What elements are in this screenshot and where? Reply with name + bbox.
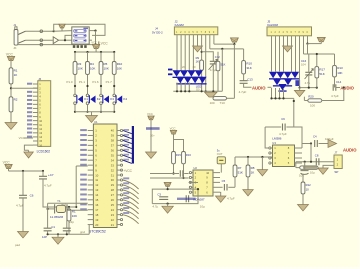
- ground LED2: [294, 90, 305, 96]
- node amp branch: [64, 39, 66, 41]
- wire gnd stem crystal: [57, 234, 59, 237]
- MCU pin31 terminal circle: [120, 174, 122, 176]
- svg-text:JK: JK: [13, 46, 16, 50]
- capacitor C2 plates: [63, 228, 71, 231]
- wire cap to U2 pin1: [184, 173, 188, 175]
- wire LED2 rail corner down: [293, 98, 295, 127]
- LCD pin3 net label: [27, 91, 32, 93]
- MCU pin24 terminal circle: [120, 209, 122, 211]
- wire MCU pin1 stub left: [88, 130, 94, 132]
- wire J5 pin7 down: [295, 36, 297, 76]
- node LED1 rail 1: [176, 90, 178, 92]
- node rail R8: [247, 156, 249, 158]
- diode D8 row2: [198, 77, 206, 83]
- bus entry tick pin34: [123, 160, 132, 163]
- wire J5 pin2 to LED array2: [275, 36, 277, 72]
- wire VCC stem: [61, 28, 63, 31]
- capacitor C4a series: [180, 170, 183, 177]
- wire col3 rail to resistor: [100, 52, 102, 62]
- svg-text:U3: U3: [272, 141, 276, 145]
- potentiometer RP1 body: [213, 97, 227, 100]
- svg-text:100: 100: [310, 104, 315, 108]
- svg-text:R16: R16: [186, 153, 191, 157]
- wire LED2 col3 down: [279, 88, 281, 98]
- wire node to R1rst: [69, 206, 76, 208]
- U3 pin7 stub: [295, 152, 303, 154]
- MCU pin24 fanout hook: [123, 210, 139, 219]
- wire LCD pin2 stub: [33, 87, 38, 89]
- resistor R10: [112, 62, 116, 75]
- LCD pin9 net label: [27, 115, 32, 117]
- wire R16 down: [183, 164, 185, 178]
- power symbol VCC U2 col: [148, 116, 155, 120]
- svg-text:R5: R5: [104, 62, 108, 66]
- svg-text:100: 100: [210, 101, 215, 105]
- wire vcc stem lower-left: [8, 169, 10, 171]
- wire rail gnd stem: [261, 157, 263, 170]
- wire C3 loop: [152, 189, 198, 204]
- svg-text:R20: R20: [308, 94, 314, 98]
- svg-text:25: 25: [111, 203, 115, 207]
- power symbol VCC header J5: [317, 37, 325, 41]
- diode D4 row1: [195, 70, 203, 76]
- node loop pin3: [197, 188, 199, 190]
- wire MCU pin40 stub right: [117, 130, 120, 132]
- wire J5 pin6 to LED array2: [291, 36, 293, 72]
- wire sig1 to cap: [150, 173, 179, 175]
- bus pin38 net label: [123, 139, 129, 141]
- resistor R7: [233, 165, 237, 177]
- sound module U5 body: [72, 27, 89, 44]
- svg-text:R17: R17: [319, 67, 325, 71]
- U2 pin4 circle: [189, 186, 191, 188]
- wire MCU pin6 stub left: [88, 154, 94, 156]
- wire R10 column top: [243, 49, 245, 61]
- svg-text:1K: 1K: [14, 73, 18, 77]
- U2 pin2 circle: [189, 176, 191, 178]
- resistor R3: [73, 62, 77, 75]
- wire J5 pin1 to LED array2: [271, 36, 273, 72]
- svg-text:10K: 10K: [78, 67, 83, 71]
- page edge fade right: [359, 0, 360, 269]
- wire col1 rail to resistor: [74, 52, 76, 62]
- node LED2 rail 4: [282, 97, 284, 99]
- svg-text:VCC: VCC: [3, 160, 11, 164]
- wire LCD pin6 stub: [33, 103, 38, 105]
- ground C6: [18, 232, 29, 239]
- wire J5 top rail right: [304, 53, 335, 55]
- wire R17 top: [316, 54, 318, 67]
- svg-text:J7: J7: [334, 151, 337, 155]
- wire vcc to R1: [10, 61, 12, 68]
- MCU pin36 terminal circle: [120, 149, 122, 151]
- wire col4 resistor to button: [113, 75, 115, 95]
- LCD pin13 net label: [27, 132, 32, 134]
- node c3 vcc: [167, 188, 169, 190]
- node r17 bottom: [316, 87, 318, 89]
- svg-text:10K: 10K: [117, 67, 122, 71]
- svg-text:10µ: 10µ: [310, 170, 315, 174]
- node pin8 rail: [205, 90, 207, 92]
- MCU pin25 hook label: [123, 202, 129, 204]
- wire LCD pin14 stub: [33, 136, 38, 138]
- svg-text:AUDIO: AUDIO: [343, 148, 357, 153]
- resistor R16: [182, 152, 186, 164]
- svg-text:10: 10: [206, 171, 209, 175]
- wire C14 to AUDIO right: [336, 87, 340, 89]
- power symbol VCC keypad: [92, 44, 100, 48]
- trimmer C16 arrow: [305, 69, 314, 79]
- wire branch vertical 222: [221, 49, 223, 91]
- wire gnd led2 stem: [299, 88, 301, 91]
- svg-text:R3: R3: [78, 62, 82, 66]
- MCU U1 body: [93, 124, 117, 228]
- bus pin37 net label: [123, 144, 129, 146]
- wire col4 button to gnd rail: [113, 104, 115, 111]
- wire J2 pin9 down: [209, 35, 211, 49]
- svg-text:R10: R10: [246, 61, 252, 65]
- diode D11 row1: [284, 72, 292, 78]
- svg-text:51K: 51K: [319, 72, 324, 76]
- node module out: [94, 30, 96, 32]
- wire R8 gnd: [247, 177, 249, 190]
- U3 pin5 stub: [295, 162, 303, 164]
- U3 pin2 stub: [271, 152, 273, 154]
- wire C5 to R7: [228, 186, 235, 188]
- wire J2 pin10 down: [213, 35, 215, 44]
- svg-text:C3: C3: [157, 192, 161, 196]
- wire MCU pin7 stub left: [88, 159, 94, 161]
- wire LCD pin13 stub: [33, 132, 38, 134]
- wire LED2 bottom rail: [272, 97, 294, 99]
- svg-text:104: 104: [301, 62, 306, 66]
- svg-text:21: 21: [111, 223, 115, 227]
- wire jack tip to node: [26, 30, 54, 32]
- wire S1 to pin10: [220, 164, 222, 173]
- node r16 sig: [182, 177, 184, 179]
- svg-text:R8: R8: [251, 166, 255, 170]
- wire R1rst top: [68, 207, 70, 209]
- svg-text:pad: pad: [15, 243, 20, 247]
- wire c4 to arrow: [319, 143, 328, 145]
- wire R7 top: [234, 157, 236, 165]
- wire c2 column: [66, 210, 68, 228]
- wire J5 pin8 down: [299, 36, 301, 88]
- wire rpair stem: [173, 134, 175, 139]
- wire MCU pin34 stub right: [117, 159, 120, 161]
- wire rpair split: [174, 140, 184, 152]
- sound module label (CJK): [73, 45, 87, 48]
- U2 pin2 stub: [192, 177, 194, 179]
- svg-text:37: 37: [111, 144, 115, 148]
- LCD pin4 net label: [27, 95, 32, 97]
- contact circle ring: [40, 39, 43, 42]
- ground trap LED1: [205, 92, 217, 97]
- wire sp pin2 gnd: [323, 165, 334, 168]
- resistor R5: [99, 62, 103, 75]
- U3 pin4 stub: [271, 162, 273, 164]
- ground lcd divider: [5, 123, 17, 130]
- wire R17 bottom: [316, 78, 318, 88]
- resistor R10: [242, 61, 246, 74]
- MCU pin37 terminal circle: [120, 144, 122, 146]
- node LED2 rail 2: [274, 97, 276, 99]
- wire MCU pin12 stub left: [88, 184, 94, 186]
- MCU pin25 terminal circle: [120, 204, 122, 206]
- wire R1rst bottom to rail: [68, 221, 70, 234]
- wire MCU pin3 stub left: [88, 139, 94, 141]
- trimmer capacitor C12 plates: [210, 61, 217, 64]
- wire XTAL1 to MCU: [48, 202, 88, 204]
- wire LCD pin8 stub: [33, 111, 38, 113]
- LCD pin10 net label: [27, 119, 32, 121]
- wire J2 pin1 to LED array: [176, 35, 178, 71]
- svg-text:C5: C5: [222, 179, 226, 183]
- wire rail up to pin20: [88, 225, 90, 235]
- MCU pin35 terminal circle: [120, 154, 122, 156]
- button K2 bottom contact: [86, 102, 89, 105]
- MCU left pin8 net label: [80, 164, 87, 166]
- node gnd led2: [299, 87, 301, 89]
- U3 pin6 stub: [295, 157, 303, 159]
- ground SP: [318, 168, 329, 174]
- svg-text:+VCC: +VCC: [123, 169, 132, 173]
- U2 pin1 circle: [189, 172, 191, 174]
- svg-text:39: 39: [111, 134, 115, 138]
- svg-text:P1.0: P1.0: [66, 80, 73, 84]
- wire J5 pin3 to LED array2: [279, 36, 281, 72]
- ground C3 block: [162, 206, 174, 213]
- wire MCU pin30 stub right: [117, 179, 120, 181]
- amplifier U3 body: [273, 145, 295, 167]
- MCU left pin3 net label: [80, 139, 87, 141]
- arrow terminal right: [328, 140, 337, 148]
- svg-text:34: 34: [111, 158, 115, 162]
- bus entry tick pin39: [123, 135, 132, 138]
- MCU pin24 hook label: [123, 207, 129, 209]
- potentiometer R20 body: [308, 99, 322, 102]
- wire lower-left rail: [9, 170, 44, 172]
- wire MCU pin32 stub right: [117, 169, 120, 171]
- svg-text:51K: 51K: [221, 62, 226, 66]
- wire rail to R13: [334, 54, 336, 65]
- node c16 bottom: [308, 87, 310, 89]
- wire R18 bottom: [217, 71, 219, 92]
- node keypad rail col2: [86, 51, 88, 53]
- wire MCU pin31 stub right: [117, 174, 120, 176]
- MCU left pin17 net label: [80, 208, 87, 210]
- power symbol VCC loop: [59, 24, 66, 28]
- svg-text:C13: C13: [247, 77, 253, 81]
- svg-text:SP: SP: [334, 170, 338, 174]
- node c4 in: [310, 142, 312, 144]
- button K2 top contact: [86, 94, 89, 97]
- node LED2 corner: [293, 100, 295, 102]
- U3 pin4 circle: [269, 162, 271, 164]
- power symbol VCC header J2: [230, 38, 238, 42]
- resistor R18: [216, 61, 220, 71]
- bus entry tick pin40: [123, 131, 132, 134]
- capacitor C3b electrolytic: [186, 195, 188, 202]
- MCU pin29 hook label: [123, 182, 129, 184]
- node R1rst top: [68, 206, 70, 208]
- diode D6 row2: [184, 77, 192, 83]
- capacitor C6 plates: [19, 195, 27, 198]
- wire tip node to module pin1: [54, 30, 72, 33]
- svg-text:VCC: VCC: [147, 112, 153, 116]
- svg-text:KA220M: KA220M: [267, 23, 278, 27]
- U2 pin6 stub: [213, 191, 220, 193]
- net label blue u2col: [146, 127, 160, 130]
- svg-text:4.7µF: 4.7µF: [44, 184, 52, 188]
- wire trimmer down: [212, 64, 214, 91]
- amplifier buffer triangle: [53, 37, 58, 44]
- svg-text:38: 38: [111, 139, 115, 143]
- node out row: [310, 161, 312, 163]
- svg-text:51K: 51K: [238, 170, 243, 174]
- wire LCD pin1 stub: [33, 83, 38, 85]
- MCU pin26 terminal circle: [120, 199, 122, 201]
- capacitor C3 plates: [159, 197, 168, 200]
- wire MCU pin36 stub right: [117, 149, 120, 151]
- LCD pin12 net label: [27, 127, 32, 129]
- svg-text:K4: K4: [123, 97, 127, 101]
- wire MCU pin5 stub left: [88, 149, 94, 151]
- node keypad rail col4: [113, 51, 115, 53]
- VCC tap bar: [98, 41, 100, 47]
- svg-text:VCC: VCC: [6, 52, 14, 56]
- ground crystal: [52, 237, 64, 244]
- MCU left pin1 net label: [80, 129, 87, 131]
- trimmer capacitor C16 plates: [305, 72, 312, 75]
- U3 pin2 circle: [269, 152, 271, 154]
- MCU left pin14 net label: [80, 193, 87, 195]
- node J5 vcc: [306, 43, 308, 45]
- wire LCD pin3 stub: [33, 91, 38, 93]
- bus pin35 net label: [123, 154, 129, 156]
- LCD pin8 net label: [27, 111, 32, 113]
- U3 pin3 circle: [269, 157, 271, 159]
- resistor R13: [333, 65, 337, 77]
- wire LCD pin16 stub: [33, 144, 38, 146]
- svg-text:U2: U2: [193, 166, 197, 170]
- node col1 gnd rail: [74, 111, 76, 113]
- svg-text:R10: R10: [117, 62, 123, 66]
- voice chip U2 body: [193, 170, 213, 196]
- wire C6 column: [22, 171, 24, 195]
- wire J2 pin2 to LED array: [180, 35, 182, 71]
- svg-text:31: 31: [111, 173, 115, 177]
- wire LCD pin9 stub: [33, 116, 38, 118]
- wire LED1 col4 to rail: [188, 83, 190, 92]
- wire J2 pin3 to LED array: [184, 35, 186, 71]
- wire MCU pin14 stub left: [88, 194, 94, 196]
- wire J5 pin9 down: [303, 36, 305, 54]
- resistor R1 reset: [67, 209, 71, 221]
- wire MCU pin35 stub right: [117, 154, 120, 156]
- wire col2 rail to resistor: [87, 52, 89, 62]
- wire c10 top: [304, 162, 306, 171]
- MCU pin27 fanout hook: [123, 195, 139, 204]
- wire MCU pin38 stub right: [117, 139, 120, 141]
- wire pot R20 right: [322, 88, 344, 101]
- svg-text:K1: K1: [84, 97, 88, 101]
- wire MCU pin39 stub right: [117, 134, 120, 136]
- bus entry tick pin36: [123, 150, 132, 153]
- svg-text:STC89C52: STC89C52: [89, 230, 106, 234]
- node rail C7: [42, 170, 44, 172]
- MCU pin28 terminal circle: [120, 189, 122, 191]
- svg-text:P1.6: P1.6: [92, 80, 99, 84]
- svg-text:R9: R9: [196, 56, 200, 60]
- wire pot R20 left up: [303, 97, 305, 101]
- wire J5 pin5 to ground trap: [287, 36, 289, 46]
- svg-text:22: 22: [111, 218, 115, 222]
- MCU left pin2 net label: [80, 134, 87, 136]
- node RST divider: [75, 206, 77, 208]
- wire col1 resistor to button: [74, 75, 76, 95]
- node LED2 rail 3: [278, 97, 280, 99]
- svg-text:P1.7: P1.7: [106, 80, 113, 84]
- wire LED2 col1 down: [271, 88, 273, 98]
- node LED1 rail r9: [201, 90, 203, 92]
- svg-text:32: 32: [111, 168, 115, 172]
- wire C16 top: [308, 54, 310, 72]
- wire LED2 right col: [299, 80, 301, 88]
- wire MCU pin2 stub left: [88, 134, 94, 136]
- svg-text:gnd: gnd: [80, 230, 85, 234]
- svg-text:11: 11: [95, 178, 98, 182]
- svg-text:4.7µF: 4.7µF: [227, 197, 235, 201]
- wire pin3 to loop: [189, 182, 198, 184]
- wire R10 to C13: [243, 74, 245, 81]
- svg-text:AUDIO: AUDIO: [252, 86, 266, 91]
- node LED1 rail 3: [184, 90, 186, 92]
- power symbol VCC lcd: [7, 56, 15, 60]
- wire col2 button to gnd rail: [87, 104, 89, 111]
- wire MCU pin16 stub left: [88, 204, 94, 206]
- wire pot R11 left: [296, 167, 300, 169]
- MCU pin21 terminal circle: [120, 223, 122, 225]
- svg-text:R15: R15: [176, 153, 181, 157]
- MCU pin39 terminal circle: [120, 134, 122, 136]
- wire J5 pin10 down: [307, 36, 309, 44]
- LCD pin6 net label: [27, 103, 32, 105]
- node c3 bottom: [167, 203, 169, 205]
- wire R15 down: [173, 164, 175, 174]
- LCD pin5 net label: [27, 99, 32, 101]
- U2 pin3 stub: [192, 181, 194, 183]
- bus entry tick pin35: [123, 155, 132, 158]
- wire MCU pin11 stub left: [88, 179, 94, 181]
- svg-text:10+: 10+: [150, 134, 155, 138]
- wire pin10 to VCC node: [214, 43, 235, 45]
- wire c6 wire: [265, 126, 281, 128]
- ground lcd pin16: [24, 152, 33, 158]
- ground header J5: [283, 46, 293, 52]
- wire feedback loop: [54, 24, 105, 35]
- MCU pin28 hook label: [123, 187, 129, 189]
- MCU left pin13 net label: [80, 189, 87, 191]
- svg-text:+C7: +C7: [48, 173, 54, 177]
- wire pin8 up c4: [302, 143, 311, 145]
- wire J2 pin4 to LED array: [188, 35, 190, 71]
- wire U2 pin7 cap wire: [220, 186, 223, 188]
- wire branch to trimmer: [202, 52, 214, 62]
- wire c3 gnd stem: [167, 204, 169, 207]
- node col4 tap: [113, 85, 115, 87]
- svg-text:28: 28: [111, 188, 115, 192]
